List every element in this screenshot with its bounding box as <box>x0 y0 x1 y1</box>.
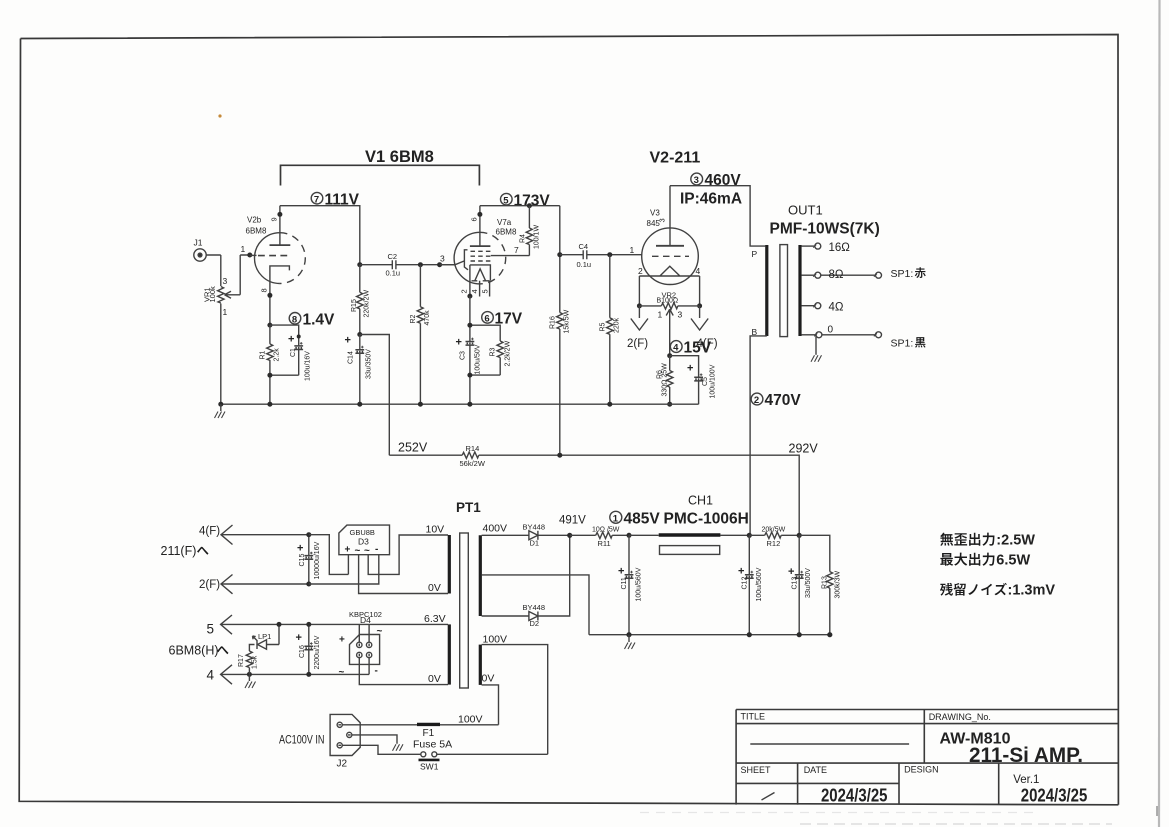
transformer OUT1 primary <box>765 245 768 336</box>
node 3 460V label <box>691 172 742 189</box>
psu ground symbol <box>625 635 636 649</box>
V7a cathode cup <box>470 265 491 296</box>
svg-text:491V: 491V <box>559 515 586 527</box>
capacitor C13 <box>795 535 804 634</box>
svg-text:CH1: CH1 <box>688 494 713 508</box>
svg-text:1: 1 <box>613 513 619 524</box>
pin 9 dot <box>277 212 282 217</box>
svg-text:1.4V: 1.4V <box>303 311 336 328</box>
resistor R12 <box>749 532 799 538</box>
svg-text:F1: F1 <box>423 728 435 739</box>
wire 111V rail <box>280 206 360 265</box>
resistor R3 <box>497 341 503 358</box>
svg-text:56k/2W: 56k/2W <box>460 459 486 468</box>
svg-text:+: + <box>738 566 744 578</box>
svg-text:R2: R2 <box>410 314 417 323</box>
svg-text:6BM8(H): 6BM8(H) <box>169 644 219 658</box>
title block sheet/date sub-line <box>736 782 899 784</box>
capacitor C15 <box>304 535 313 584</box>
transformer PT1 right bar 400V <box>479 535 482 616</box>
svg-text:470k: 470k <box>424 310 431 326</box>
svg-text:100u/16V: 100u/16V <box>305 351 312 381</box>
svg-text:+: + <box>687 363 693 375</box>
arrow 4F <box>691 306 708 330</box>
ground symbol main <box>215 404 226 418</box>
svg-text:1: 1 <box>241 244 246 254</box>
svg-text:33u/500V: 33u/500V <box>805 568 812 598</box>
resistor R1 <box>267 344 273 361</box>
svg-text:1: 1 <box>223 307 228 317</box>
node R16 252V <box>557 453 562 458</box>
svg-text:R1: R1 <box>260 350 267 359</box>
wire 100V bottom tap <box>482 685 499 725</box>
svg-text:C3: C3 <box>460 351 467 360</box>
svg-text:R5: R5 <box>600 322 607 331</box>
svg-text:~: ~ <box>377 626 383 637</box>
D4 terminal marks <box>339 626 383 678</box>
wire 100V top tap <box>482 645 548 755</box>
diode D2 <box>529 535 570 620</box>
resistor R16 <box>557 313 563 330</box>
node R5 top <box>607 252 612 257</box>
lamp LP1 <box>253 624 280 649</box>
svg-text:+: + <box>618 566 624 578</box>
svg-text:SP1:: SP1: <box>891 337 914 349</box>
node 8 1.4V label <box>289 311 335 328</box>
potentiometer VR2 <box>639 303 699 356</box>
resistor R4 <box>526 206 532 256</box>
capacitor C2 <box>360 260 455 269</box>
svg-text:3: 3 <box>440 254 445 264</box>
capacitor C11 <box>625 535 634 634</box>
D3 pin ac2 to 10V <box>368 535 448 574</box>
D4 pin wires <box>359 624 448 684</box>
svg-text:V7a: V7a <box>497 218 512 227</box>
svg-text:DATE: DATE <box>804 765 827 775</box>
svg-text:2: 2 <box>754 395 759 406</box>
svg-text:16Ω: 16Ω <box>829 242 851 254</box>
svg-text:6: 6 <box>484 314 489 325</box>
wire 400V top tap <box>482 534 529 536</box>
svg-text:9: 9 <box>270 217 279 221</box>
svg-text:15k/5W: 15k/5W <box>564 309 571 333</box>
svg-text:10V: 10V <box>426 524 445 536</box>
label SP1 black <box>891 337 926 349</box>
svg-text:~: ~ <box>364 546 370 557</box>
svg-text:400V: 400V <box>483 523 508 535</box>
svg-text:5: 5 <box>207 621 215 636</box>
wire 400V center tap <box>482 575 589 635</box>
resistor R13 <box>827 572 833 589</box>
svg-text:+: + <box>345 335 351 347</box>
V7a pins 4 5 <box>480 281 490 297</box>
V7a pin7 line <box>491 255 530 257</box>
fuse F1 <box>417 723 440 726</box>
diode D1 <box>529 531 570 540</box>
svg-text:485V: 485V <box>624 510 661 527</box>
svg-text:DRAWING_No.: DRAWING_No. <box>929 712 991 722</box>
ground rail <box>221 403 699 405</box>
svg-text:2: 2 <box>460 289 469 293</box>
svg-text:B100Ω: B100Ω <box>657 297 679 304</box>
capacitor C16 <box>304 624 313 674</box>
spec text 残留ノイズ:1.3mV <box>940 583 1055 599</box>
svg-text:V3: V3 <box>650 209 660 218</box>
svg-text:6BM8: 6BM8 <box>496 228 517 237</box>
svg-text:C11: C11 <box>621 577 628 589</box>
svg-text:10Ω /5W: 10Ω /5W <box>592 526 620 533</box>
svg-text:4: 4 <box>207 667 215 682</box>
svg-text:460V: 460V <box>705 172 742 189</box>
node C15 top <box>306 532 311 537</box>
svg-text:4: 4 <box>470 289 479 293</box>
svg-text:33u/350V: 33u/350V <box>366 349 373 379</box>
node 17V <box>467 323 472 328</box>
V7a grid lead <box>440 250 468 270</box>
svg-text:3: 3 <box>658 218 667 222</box>
psu ground rail <box>589 634 830 636</box>
wire 460V rail <box>670 186 765 246</box>
svg-text:4Ω: 4Ω <box>829 301 844 313</box>
J2 pins <box>337 722 352 748</box>
wire 252V feed <box>360 335 390 456</box>
node C16 top <box>306 622 311 627</box>
choke CH1 bar <box>659 533 721 537</box>
V2b grid <box>250 254 292 256</box>
svg-text:10000u/16V: 10000u/16V <box>314 541 321 579</box>
arrow 4F heater <box>221 525 309 545</box>
svg-text:-: - <box>375 666 378 677</box>
svg-text:100V: 100V <box>483 634 508 646</box>
svg-text:+: + <box>345 545 351 556</box>
svg-text:2024/3/25: 2024/3/25 <box>821 785 888 806</box>
title block TITLE/DRAWING divider <box>923 710 925 764</box>
svg-text:SHEET: SHEET <box>741 765 772 775</box>
node R15 bottom <box>357 332 362 337</box>
svg-text:+: + <box>339 635 345 646</box>
psu ground dots <box>626 632 832 637</box>
svg-text::1.3mV: :1.3mV <box>1008 583 1056 599</box>
svg-text:1.5k: 1.5k <box>252 655 259 669</box>
node LP1 top <box>277 622 282 627</box>
node C4 branch <box>557 252 562 257</box>
D4 terminals <box>357 642 372 658</box>
svg-text:Fuse 5A: Fuse 5A <box>413 739 452 751</box>
svg-text:6.3V: 6.3V <box>424 613 446 625</box>
V2b cathode <box>270 266 290 325</box>
title block header row line <box>736 723 1118 725</box>
node grid V2b <box>247 253 252 258</box>
svg-text:5: 5 <box>503 195 509 206</box>
wire rail to R13 <box>799 535 830 634</box>
arrow 2F <box>631 306 648 330</box>
svg-text:100u/50V: 100u/50V <box>475 344 482 374</box>
svg-text:173V: 173V <box>514 192 551 209</box>
node R6 bottom <box>667 402 672 407</box>
input jack J1 <box>194 249 206 261</box>
node R1 bottom <box>267 373 272 378</box>
svg-text:20k/5W: 20k/5W <box>762 526 786 533</box>
svg-text:3: 3 <box>223 276 228 286</box>
svg-text:D1: D1 <box>530 539 540 548</box>
svg-text:C16: C16 <box>299 645 306 658</box>
svg-text:220k: 220k <box>614 317 621 333</box>
svg-text:1: 1 <box>630 245 635 255</box>
wire J2 neutral to SW1 <box>342 745 421 754</box>
node 1 485V PMC-1006H label <box>610 510 749 527</box>
svg-text:2024/3/25: 2024/3/25 <box>1021 785 1088 806</box>
svg-text:100V: 100V <box>458 714 483 726</box>
sheet slash mark <box>762 793 775 801</box>
svg-text:0V: 0V <box>428 582 441 594</box>
svg-text:D2: D2 <box>530 619 540 628</box>
svg-text:2.2k/2W: 2.2k/2W <box>505 340 512 366</box>
choke CH1 coil box <box>660 546 720 555</box>
node 15V <box>667 353 672 358</box>
svg-text:C14: C14 <box>348 351 355 364</box>
svg-text:6.5W: 6.5W <box>996 553 1030 569</box>
node 2 470V label <box>751 392 801 409</box>
svg-text:6BM8: 6BM8 <box>246 227 267 236</box>
svg-text:4: 4 <box>696 266 701 276</box>
spec text 最大出力6.5W <box>940 553 1030 569</box>
tube V2b envelope <box>255 233 306 284</box>
svg-text:SP1:: SP1: <box>891 268 914 280</box>
arrow 2F psu <box>221 575 309 594</box>
svg-text::2.5W: :2.5W <box>996 533 1035 549</box>
svg-text:330Ω 25W: 330Ω 25W <box>662 363 669 397</box>
svg-text:7: 7 <box>514 245 519 255</box>
V3 plate <box>656 186 684 246</box>
svg-text:BY448: BY448 <box>523 603 546 612</box>
svg-text:J1: J1 <box>194 238 203 248</box>
arrow 4 heater <box>221 665 370 684</box>
svg-text:+: + <box>288 334 294 346</box>
svg-text:IP:46mA: IP:46mA <box>680 191 742 208</box>
arrow 5 heater <box>221 615 448 634</box>
svg-text:C12: C12 <box>742 577 749 590</box>
capacitor C4 <box>560 250 643 259</box>
svg-text:8Ω: 8Ω <box>829 269 844 281</box>
svg-text:PT1: PT1 <box>456 500 481 515</box>
node 491V <box>567 533 572 538</box>
svg-text:AC100V IN: AC100V IN <box>279 734 325 746</box>
svg-text:R4: R4 <box>520 234 527 243</box>
resistor R17 <box>246 645 254 675</box>
bridge D3 package <box>339 525 390 555</box>
resistor R11 <box>570 532 629 538</box>
node R15 top <box>357 262 362 267</box>
svg-text:100u/100V: 100u/100V <box>710 364 717 398</box>
D3 pin plus <box>347 555 349 575</box>
svg-text:R15: R15 <box>351 299 358 312</box>
V7a heater <box>472 269 490 281</box>
svg-text:4: 4 <box>673 343 679 354</box>
node VR2 right <box>697 303 702 308</box>
label 211F <box>161 544 209 558</box>
resistor R14 <box>462 452 479 458</box>
svg-text:2200u/16V: 2200u/16V <box>314 635 321 669</box>
svg-text:R16: R16 <box>550 316 557 329</box>
wire SW1 to 100V <box>437 753 548 755</box>
title block middle row line <box>736 762 1118 764</box>
switch SW1 <box>421 752 437 757</box>
spec text 無歪出力:2.5W <box>940 533 1035 549</box>
label 6BM8H <box>169 644 229 658</box>
tube V3 845 envelope <box>642 228 699 285</box>
potentiometer VR1 <box>218 255 250 303</box>
svg-text:0V: 0V <box>482 673 495 685</box>
V2b plate <box>270 206 291 245</box>
node VR2 left <box>637 303 642 308</box>
svg-text:DESIGN: DESIGN <box>904 765 939 775</box>
wire cathode node rail <box>270 325 299 404</box>
wire 4F to D3 plus <box>309 535 349 575</box>
bridge D4 package <box>350 635 380 665</box>
svg-text:SW1: SW1 <box>420 762 439 772</box>
svg-text:V2b: V2b <box>247 216 262 225</box>
svg-text:100u/560V: 100u/560V <box>756 567 763 601</box>
transformer PT1 right bar 100V <box>479 645 482 685</box>
resistor R6 <box>667 371 673 388</box>
D3 terminal marks <box>345 544 379 557</box>
V3 grid <box>652 255 689 257</box>
connector J2 <box>330 714 360 755</box>
svg-text:R12: R12 <box>767 539 781 548</box>
capacitor C12 <box>745 535 754 634</box>
transformer PT1 left bar lower <box>448 624 451 684</box>
svg-text:2: 2 <box>638 266 643 276</box>
node 292V rail <box>797 533 802 538</box>
svg-text:C2: C2 <box>388 252 398 261</box>
svg-text:PMF-10WS(7K): PMF-10WS(7K) <box>770 221 880 238</box>
ground OUT1 <box>811 335 822 362</box>
svg-text:V1 6BM8: V1 6BM8 <box>365 148 434 166</box>
wire J2 earth <box>352 735 403 751</box>
node cathode junction <box>267 323 272 328</box>
svg-text:+: + <box>456 337 462 349</box>
transformer PT1 left bar upper <box>448 535 451 594</box>
svg-text:0: 0 <box>828 324 834 335</box>
tap 4ohm <box>801 303 820 309</box>
label SP1 red <box>891 267 926 280</box>
node R17 bottom <box>247 672 252 677</box>
svg-text:R3: R3 <box>490 347 497 356</box>
svg-text:300k/3W: 300k/3W <box>835 570 842 598</box>
svg-text:V2-211: V2-211 <box>650 150 701 167</box>
wire 400V bottom tap <box>482 615 529 617</box>
svg-text:C1: C1 <box>290 348 297 357</box>
pin 2 dot <box>467 294 472 299</box>
svg-text:BY448: BY448 <box>523 522 546 531</box>
capacitor C5 <box>694 373 703 381</box>
node R4 top <box>527 203 532 208</box>
svg-text:+: + <box>297 543 303 555</box>
node C16 bottom <box>306 672 311 677</box>
svg-text:2(F): 2(F) <box>199 579 220 591</box>
svg-text:8: 8 <box>292 314 297 325</box>
ground rail dots <box>218 402 612 407</box>
svg-text:C15: C15 <box>299 554 306 567</box>
V7a plate <box>470 206 491 246</box>
svg-text:P: P <box>752 249 758 259</box>
svg-text:2(F): 2(F) <box>627 338 648 350</box>
wire filament legs <box>639 276 699 306</box>
svg-text:100u/560V: 100u/560V <box>636 567 643 601</box>
svg-text:8: 8 <box>260 288 269 292</box>
node 7 111V label <box>311 191 359 208</box>
node C1 plus <box>297 335 301 339</box>
svg-text:3: 3 <box>678 310 683 320</box>
svg-text:6: 6 <box>470 217 479 221</box>
wire J1 to VR1 <box>206 255 221 404</box>
svg-text:470V: 470V <box>765 392 802 409</box>
pin 8 dot <box>267 293 272 298</box>
node R2 top <box>418 262 423 267</box>
svg-text:220k/2W: 220k/2W <box>364 289 371 317</box>
transformer OUT1 core <box>780 245 788 337</box>
svg-text:~: ~ <box>339 667 345 678</box>
node 6 17V label <box>482 310 523 327</box>
blank title underline <box>750 743 909 745</box>
capacitor C1 <box>294 342 303 350</box>
tube V7a envelope <box>454 232 506 284</box>
svg-text:5: 5 <box>481 289 490 293</box>
svg-text:0V: 0V <box>428 673 441 685</box>
node B 470V rail <box>747 533 752 538</box>
title block outer box <box>736 710 1118 805</box>
resistor R2 <box>417 265 423 405</box>
svg-text:100k: 100k <box>208 286 217 303</box>
svg-text:PMC-1006H: PMC-1006H <box>664 510 749 527</box>
tap 8ohm <box>801 272 881 278</box>
tap 16ohm <box>801 243 820 249</box>
svg-text:R11: R11 <box>598 539 611 548</box>
svg-text:+: + <box>296 632 302 644</box>
svg-text:R17: R17 <box>238 654 245 667</box>
svg-text:252V: 252V <box>398 441 428 455</box>
transformer PT1 core <box>460 533 469 688</box>
wire 173V rail <box>480 205 560 207</box>
svg-text:R13: R13 <box>822 576 829 589</box>
svg-text:292V: 292V <box>789 442 819 456</box>
node C3 bottom <box>467 373 472 378</box>
svg-text:D4: D4 <box>360 615 371 625</box>
scanner artifact dashes bottom <box>640 806 1157 824</box>
svg-text:R14: R14 <box>466 444 480 453</box>
capacitor C3 <box>466 338 475 346</box>
resistor R5 <box>607 255 613 405</box>
tap 0 <box>801 332 881 338</box>
svg-text:-: - <box>375 544 378 555</box>
svg-text:15V: 15V <box>684 340 712 357</box>
node C15 bottom <box>306 582 311 587</box>
transformer OUT1 secondary <box>798 245 801 336</box>
svg-text:C4: C4 <box>579 242 589 251</box>
svg-text:LP1: LP1 <box>258 632 271 641</box>
wire rail to choke <box>629 534 749 536</box>
svg-text:2.2k: 2.2k <box>274 348 281 362</box>
bracket V1 6BM8 <box>281 165 480 185</box>
V3 filament <box>639 266 699 276</box>
svg-text:1: 1 <box>658 310 663 320</box>
pin 6 dot <box>477 212 482 217</box>
node 5 173V label <box>501 192 551 209</box>
svg-text:J2: J2 <box>337 759 348 770</box>
scanner paper-edge shadow right <box>1158 0 1161 827</box>
switch SW1 bar <box>419 759 440 762</box>
node C11 top <box>627 533 632 538</box>
